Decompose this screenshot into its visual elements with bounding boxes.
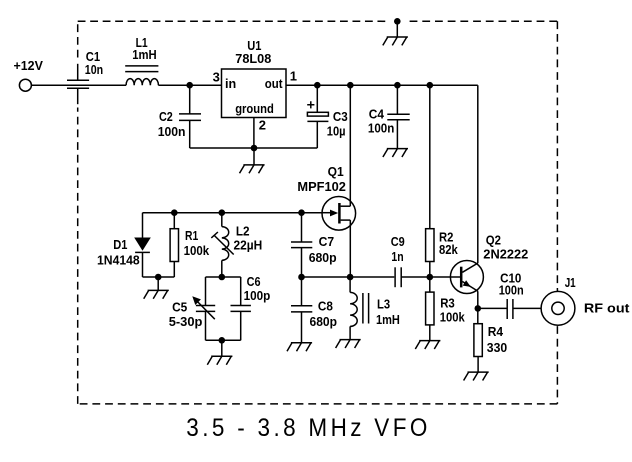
wire gate net (143, 212, 323, 214)
svg-text:C4: C4 (369, 106, 385, 121)
resistor R4 (474, 324, 507, 372)
wire +12V input (32, 84, 126, 86)
svg-text:L3: L3 (377, 297, 390, 312)
wire U1 out rail (286, 84, 478, 86)
svg-text:100n: 100n (158, 124, 186, 139)
svg-text:100n: 100n (499, 282, 524, 297)
wire C9 to Q2 base (401, 276, 460, 278)
capacitor C9 (391, 234, 405, 287)
svg-text:C7: C7 (319, 234, 335, 249)
wire tank bottom (206, 339, 241, 341)
svg-text:J1: J1 (565, 275, 576, 290)
node R2 junction (427, 82, 434, 89)
svg-text:10n: 10n (85, 62, 103, 77)
wire L1 to U1 (158, 84, 221, 86)
svg-text:R4: R4 (488, 324, 504, 339)
node C7/C8 junction (298, 274, 305, 281)
capacitor C6 (231, 274, 271, 340)
ground (D1/R1) (144, 277, 169, 299)
wire emitter to C10 (478, 307, 507, 309)
ground (tank) (207, 340, 232, 364)
node C4 junction (394, 82, 401, 89)
node +12V terminal (19, 79, 31, 91)
capacitor C8 (291, 277, 337, 343)
svg-text:1: 1 (290, 69, 297, 84)
svg-text:R3: R3 (440, 295, 455, 310)
capacitor C3 (electrolytic) (307, 85, 348, 148)
svg-text:Q1: Q1 (328, 164, 344, 179)
node tank ground junction (219, 337, 226, 344)
svg-text:3: 3 (213, 69, 220, 84)
svg-text:680p: 680p (309, 250, 337, 265)
capacitor C4 (368, 85, 410, 148)
svg-text:82k: 82k (439, 242, 458, 257)
node ground rail junction (251, 145, 258, 152)
svg-text:C3: C3 (333, 109, 348, 124)
node Q1 drain junction (347, 82, 354, 89)
svg-text:100k: 100k (440, 310, 466, 325)
ground (C4) (383, 149, 408, 157)
capacitor C5 (variable) (169, 277, 216, 340)
transistor Q1 MPF102 (297, 85, 355, 277)
capacitor C10 (499, 271, 552, 319)
node L2 top junction (219, 209, 226, 216)
svg-text:C5: C5 (172, 299, 187, 314)
svg-text:1mH: 1mH (132, 47, 157, 62)
node D1/R1 ground junction (155, 274, 162, 281)
resistor R1 (170, 213, 210, 277)
ground (L3) (336, 340, 361, 348)
node Q1 source/L3 junction (347, 274, 354, 281)
svg-text:RF out: RF out (584, 301, 630, 316)
inductor L2 (variable) (211, 213, 262, 277)
svg-text:100p: 100p (244, 288, 271, 303)
ground (R4) (464, 372, 489, 380)
wire U1 pin2 stub (253, 118, 255, 149)
node L2 bottom junction (219, 274, 226, 281)
connector J1 RF out (541, 275, 630, 325)
svg-text:3.5 - 3.8 MHz VFO: 3.5 - 3.8 MHz VFO (186, 414, 430, 442)
node Q2 emitter junction (475, 305, 482, 312)
ground (R3) (415, 341, 440, 349)
node C3 junction (314, 82, 321, 89)
svg-text:330: 330 (487, 340, 507, 355)
svg-text:1n: 1n (391, 249, 403, 264)
svg-text:22µH: 22µH (234, 238, 263, 253)
capacitor C1 (feedthrough) (67, 49, 103, 104)
resistor R3 (426, 277, 466, 341)
svg-text:out: out (265, 76, 283, 91)
node C7 top junction (298, 209, 305, 216)
resistor R2 (426, 85, 459, 277)
inductor L3 (350, 277, 400, 340)
node C2 tap junction (186, 82, 193, 89)
wire source net (302, 276, 395, 278)
svg-text:L2: L2 (236, 223, 250, 238)
svg-text:C6: C6 (247, 274, 261, 289)
svg-text:+12V: +12V (14, 58, 44, 73)
svg-text:D1: D1 (113, 237, 127, 252)
svg-text:C9: C9 (391, 234, 405, 249)
node R2/R3 base junction (427, 274, 434, 281)
shielded enclosure dashed box (78, 21, 558, 404)
ground (C8) (287, 343, 312, 351)
capacitor C2 (158, 85, 201, 148)
svg-text:Q2: Q2 (486, 232, 501, 247)
svg-text:5-30p: 5-30p (169, 314, 203, 329)
transistor Q2 2N2222 (450, 85, 528, 324)
wire tank top (206, 276, 241, 278)
wire ground rail under U1 (190, 147, 318, 149)
svg-text:ground: ground (235, 101, 274, 116)
svg-text:R1: R1 (185, 228, 198, 243)
diode D1 1N4148 (97, 213, 151, 277)
svg-text:1N4148: 1N4148 (97, 252, 140, 267)
svg-text:680p: 680p (310, 314, 338, 329)
svg-text:in: in (225, 76, 236, 91)
ground (U1) (240, 148, 265, 173)
svg-text:78L08: 78L08 (235, 51, 271, 66)
svg-text:10µ: 10µ (327, 123, 346, 138)
ground (enclosure top) (383, 18, 408, 45)
svg-text:2N2222: 2N2222 (483, 246, 528, 261)
svg-text:100n: 100n (368, 121, 394, 136)
svg-text:C8: C8 (318, 299, 333, 314)
svg-text:2: 2 (259, 118, 266, 133)
svg-text:1mH: 1mH (376, 312, 400, 327)
wire D1/R1 bottom (143, 276, 175, 278)
svg-text:100k: 100k (184, 243, 210, 258)
svg-text:MPF102: MPF102 (297, 179, 346, 194)
inductor L1 (125, 35, 158, 85)
node R1 top junction (171, 209, 178, 216)
svg-text:C2: C2 (159, 109, 173, 124)
capacitor C7 (291, 213, 337, 277)
op-amp U1 78L08 regulator box (213, 38, 297, 132)
